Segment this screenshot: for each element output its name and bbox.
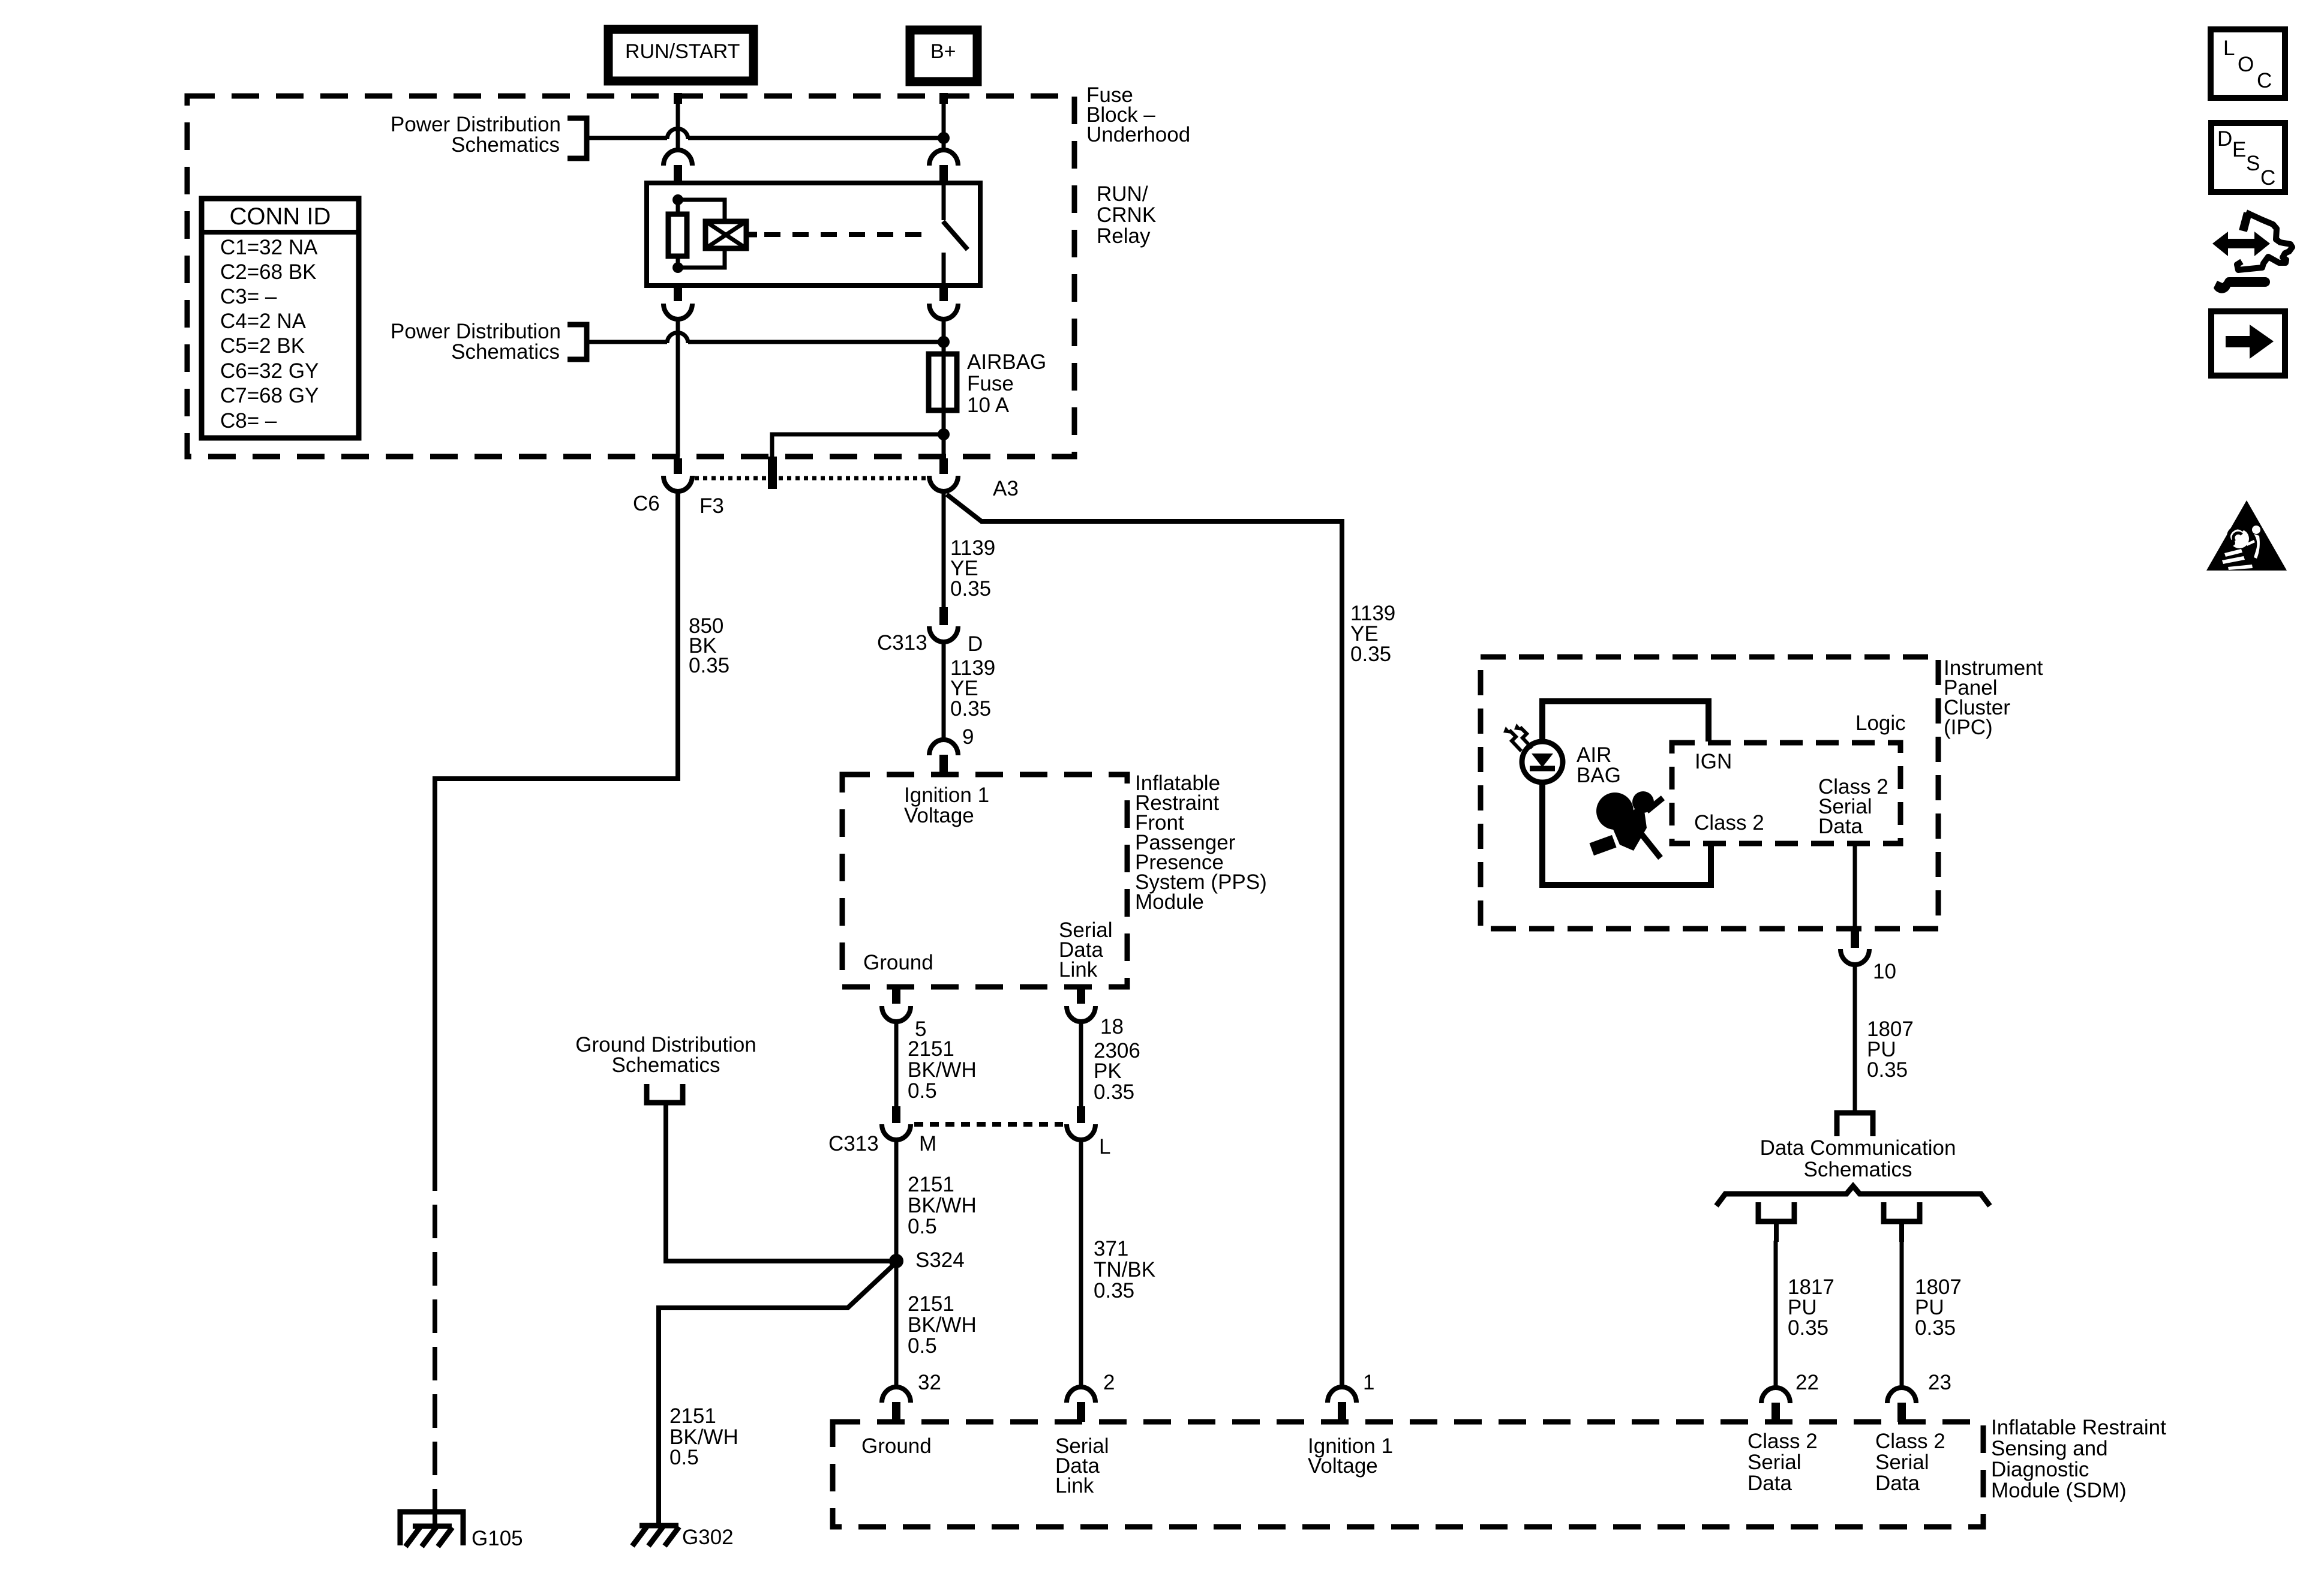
connector face dotted line C6-A3 — [695, 476, 927, 481]
svg-text:Ground: Ground — [863, 951, 933, 974]
svg-text:S324: S324 — [915, 1248, 965, 1272]
svg-text:RUN/: RUN/ — [1097, 182, 1148, 206]
wire label 371 TN/BK 0.35 — [1094, 1237, 1155, 1302]
wire A3 to C313 D — [939, 493, 948, 625]
connector C313 M — [882, 1124, 911, 1140]
svg-text:Data: Data — [1875, 1472, 1920, 1495]
svg-text:32: 32 — [918, 1371, 941, 1394]
svg-text:0.5: 0.5 — [669, 1446, 699, 1469]
wire: power distribution line 1 — [587, 129, 944, 139]
wire label 1817 PU 0.35 — [1788, 1275, 1834, 1340]
svg-text:D: D — [2217, 127, 2232, 151]
SDM internal label Serial Data Link — [1055, 1434, 1109, 1497]
svg-text:IGN: IGN — [1695, 750, 1732, 773]
svg-text:G105: G105 — [472, 1527, 523, 1550]
connector PPS pin 5 — [882, 988, 911, 1022]
svg-text:Module (SDM): Module (SDM) — [1991, 1479, 2127, 1502]
svg-text:C1=32 NA: C1=32 NA — [220, 236, 318, 259]
wire label 1139 YE 0.35 lower — [950, 656, 995, 721]
svg-text:Underhood: Underhood — [1086, 123, 1190, 146]
relay switch wire from box top — [942, 183, 946, 220]
wire label 1807 PU 0.35 (pin23) — [1915, 1275, 1962, 1340]
svg-text:Data Communication: Data Communication — [1760, 1136, 1956, 1160]
svg-text:2151: 2151 — [908, 1173, 954, 1196]
relay RUN/CRNK box — [647, 183, 980, 286]
power distribution bracket 1 — [568, 118, 587, 158]
airbag pictogram — [1589, 791, 1663, 858]
svg-text:M: M — [919, 1132, 936, 1155]
LED diode symbol — [1530, 754, 1555, 769]
svg-text:C6=32 GY: C6=32 GY — [220, 359, 319, 383]
connector SDM pin 22 — [1761, 1388, 1790, 1422]
wire to F3 terminal — [768, 434, 944, 489]
connector SDM pin 1 — [1328, 1387, 1356, 1422]
svg-text:0.35: 0.35 — [1915, 1316, 1956, 1340]
svg-text:Fuse: Fuse — [967, 372, 1014, 395]
data communication destination bracket — [1837, 1113, 1873, 1136]
svg-text:Module: Module — [1135, 890, 1204, 914]
svg-text:C313: C313 — [828, 1132, 879, 1155]
branch bracket left — [1758, 1202, 1794, 1242]
svg-text:0.35: 0.35 — [1788, 1316, 1828, 1340]
wire label 2151 BK/WH 0.5 (M to S324) — [908, 1173, 977, 1238]
svg-text:1: 1 — [1363, 1371, 1374, 1394]
wire RUN/START drop — [674, 93, 682, 150]
wire: power distribution line 2 — [587, 333, 944, 343]
svg-text:A3: A3 — [993, 477, 1019, 500]
svg-text:2151: 2151 — [669, 1404, 716, 1428]
IPC wire LED to logic Class 2 — [1542, 781, 1711, 885]
svg-text:0.5: 0.5 — [908, 1215, 937, 1238]
wire logic output to IPC edge — [1853, 843, 1857, 927]
connector C313 D — [929, 626, 958, 642]
PPS module label — [1135, 772, 1267, 914]
wire label 2151 BK/WH 0.5 (pin5) — [908, 1037, 977, 1103]
relay label — [1097, 182, 1156, 248]
svg-text:S: S — [2246, 152, 2260, 175]
svg-text:PK: PK — [1094, 1059, 1122, 1083]
wire pin18 to C313 L — [1077, 1022, 1085, 1123]
svg-text:371: 371 — [1094, 1237, 1128, 1260]
svg-text:10: 10 — [1873, 960, 1896, 983]
ground G105 — [400, 1509, 463, 1547]
connector C6 — [663, 458, 692, 491]
wire ground distribution to S324 — [666, 1122, 896, 1261]
label box RUN/START — [608, 29, 753, 81]
svg-text:L: L — [2223, 37, 2235, 60]
connector RUN/START into relay — [663, 150, 692, 183]
svg-text:0.35: 0.35 — [1867, 1058, 1908, 1082]
connector C313 L — [1067, 1124, 1095, 1140]
svg-text:23: 23 — [1928, 1371, 1951, 1394]
wire label 2151 BK/WH 0.5 (G302) — [669, 1404, 738, 1469]
relay coil resistor — [668, 200, 687, 268]
junction dot relay bottom — [672, 262, 683, 273]
svg-text:C: C — [2260, 166, 2275, 190]
junction S324 — [889, 1254, 903, 1268]
svg-text:C7=68 GY: C7=68 GY — [220, 384, 319, 407]
svg-text:C: C — [2257, 69, 2272, 92]
branch bracket right — [1884, 1202, 1920, 1242]
svg-text:Voltage: Voltage — [1308, 1454, 1378, 1478]
SDM internal label Class 2 Serial Data (pin22) — [1747, 1430, 1818, 1495]
svg-text:0.35: 0.35 — [1094, 1279, 1134, 1302]
relay solenoid X box — [705, 221, 757, 248]
power distribution bracket 2 — [568, 325, 587, 359]
logic label Class 2 Serial Data — [1818, 775, 1888, 838]
svg-text:Link: Link — [1055, 1474, 1094, 1497]
junction dot fuse output — [938, 428, 950, 440]
svg-text:RUN/START: RUN/START — [625, 40, 740, 63]
label box B+ — [910, 30, 977, 82]
svg-text:Schematics: Schematics — [1804, 1158, 1912, 1181]
svg-text:TN/BK: TN/BK — [1094, 1258, 1155, 1281]
wire A3 branch to ignition 1 voltage — [947, 494, 1342, 1387]
connector PPS pin 18 — [1067, 988, 1095, 1022]
wire L to SDM pin 2 — [1079, 1140, 1083, 1387]
svg-text:BK/WH: BK/WH — [908, 1058, 977, 1082]
svg-text:AIRBAG: AIRBAG — [967, 350, 1046, 374]
svg-text:C2=68 BK: C2=68 BK — [220, 260, 317, 284]
IPC dashed box — [1481, 657, 1938, 929]
wire pin 10 to data comm bracket — [1853, 965, 1857, 1110]
SDM module label — [1991, 1416, 2166, 1502]
relay control dashed line — [764, 232, 933, 237]
svg-text:Diagnostic: Diagnostic — [1991, 1458, 2089, 1481]
svg-text:Serial: Serial — [1875, 1451, 1929, 1474]
wire B+ relay to fuse — [942, 319, 946, 354]
PPS internal label Serial Data Link — [1059, 918, 1112, 981]
svg-text:0.35: 0.35 — [689, 654, 729, 677]
svg-text:Data: Data — [1747, 1472, 1792, 1495]
icon LOC box — [2211, 29, 2285, 98]
svg-text:C3= –: C3= – — [220, 285, 277, 308]
svg-text:0.35: 0.35 — [1350, 643, 1391, 666]
svg-text:Relay: Relay — [1097, 224, 1151, 248]
svg-text:E: E — [2232, 138, 2246, 161]
svg-text:BK/WH: BK/WH — [908, 1313, 977, 1337]
wire label 1139 YE 0.35 upper — [950, 536, 995, 601]
SDM dashed box — [833, 1422, 1983, 1527]
wire fuse to junction — [942, 410, 946, 457]
junction dot line1 at B+ wire — [938, 132, 950, 144]
svg-text:O: O — [2238, 53, 2254, 76]
svg-text:2151: 2151 — [908, 1292, 954, 1316]
svg-text:Schematics: Schematics — [451, 340, 560, 364]
svg-text:22: 22 — [1795, 1371, 1819, 1394]
svg-text:C5=2 BK: C5=2 BK — [220, 334, 305, 358]
wire label 2306 PK 0.35 — [1094, 1039, 1140, 1104]
ground G302 — [632, 1526, 679, 1546]
svg-text:BAG: BAG — [1577, 764, 1621, 787]
wire 850 BK drop to G105 — [435, 491, 678, 1509]
wire bracket to pin 23 — [1900, 1241, 1904, 1388]
svg-text:Class 2: Class 2 — [1747, 1430, 1818, 1453]
icon airbag warning triangle — [2206, 500, 2287, 571]
CONN ID table — [202, 199, 359, 438]
svg-text:0.5: 0.5 — [908, 1334, 937, 1358]
svg-text:C4=2 NA: C4=2 NA — [220, 310, 307, 333]
svg-text:Schematics: Schematics — [451, 133, 560, 157]
connector SDM pin 2 — [1067, 1387, 1095, 1422]
icon vehicle communication — [2212, 212, 2292, 293]
wire S324 to G302 — [659, 1265, 894, 1524]
svg-text:Class 2: Class 2 — [1875, 1430, 1945, 1453]
svg-text:0.35: 0.35 — [950, 577, 991, 601]
SDM internal label Class 2 Serial Data (pin23) — [1875, 1430, 1945, 1495]
wire label 1139 YE 0.35 right — [1350, 602, 1395, 666]
svg-text:Logic: Logic — [1855, 712, 1906, 735]
svg-text:C8= –: C8= – — [220, 409, 277, 433]
icon DESC box — [2211, 123, 2285, 192]
ground distribution label — [575, 1033, 756, 1077]
wire S324 to SDM pin 32 — [894, 1261, 899, 1387]
svg-text:10 A: 10 A — [967, 394, 1010, 417]
wire label 1807 PU 0.35 (IPC) — [1867, 1017, 1914, 1082]
svg-text:B+: B+ — [930, 40, 956, 63]
svg-text:C6: C6 — [633, 492, 660, 515]
fuse block label — [1086, 83, 1190, 146]
data communication schematics label — [1760, 1136, 1956, 1181]
svg-text:L: L — [1099, 1135, 1110, 1158]
junction dot relay top — [672, 194, 683, 205]
connector SDM pin 32 — [882, 1387, 911, 1422]
power distribution label 1 — [391, 113, 561, 157]
wire pin5 to C313 M — [892, 1022, 900, 1123]
wire left drop to line2 — [676, 319, 680, 457]
PPS internal label Ignition 1 Voltage — [904, 784, 989, 827]
svg-text:(IPC): (IPC) — [1944, 716, 1993, 739]
label AIR BAG — [1577, 743, 1621, 787]
junction dot line2 at B+ wire — [938, 336, 950, 348]
connector below relay left — [663, 286, 692, 319]
IPC label — [1944, 656, 2043, 739]
AIRBAG fuse symbol — [929, 354, 957, 410]
svg-text:0.35: 0.35 — [950, 697, 991, 721]
svg-text:Data: Data — [1818, 815, 1863, 838]
wire B+ drop — [939, 93, 948, 150]
connector below relay right — [929, 286, 958, 319]
svg-text:C313: C313 — [877, 631, 927, 655]
connector pin 9 — [929, 740, 958, 775]
LED indicator circle — [1522, 742, 1563, 782]
svg-text:0.35: 0.35 — [1094, 1080, 1134, 1104]
wire label 2151 BK/WH 0.5 (pin32) — [908, 1292, 977, 1358]
SDM internal label Ignition 1 Voltage — [1308, 1434, 1393, 1478]
IPC wire LED to logic IGN — [1542, 701, 1709, 743]
icon arrow box — [2211, 311, 2285, 376]
svg-text:Schematics: Schematics — [612, 1053, 720, 1077]
PPS module dashed box — [842, 775, 1127, 987]
svg-text:18: 18 — [1100, 1015, 1124, 1038]
svg-text:Inflatable Restraint: Inflatable Restraint — [1991, 1416, 2166, 1439]
svg-text:2: 2 — [1103, 1371, 1115, 1394]
wire M to S324 — [894, 1140, 899, 1261]
svg-text:Class 2: Class 2 — [1694, 811, 1764, 834]
LED flash arrows — [1503, 724, 1532, 751]
wire C313 D to pin 9 — [942, 642, 946, 740]
AIRBAG fuse label — [967, 350, 1046, 417]
svg-text:BK/WH: BK/WH — [908, 1194, 977, 1217]
connector SDM pin 23 — [1887, 1388, 1916, 1422]
svg-text:Serial: Serial — [1747, 1451, 1801, 1474]
svg-text:CRNK: CRNK — [1097, 203, 1156, 227]
svg-text:Voltage: Voltage — [904, 804, 974, 827]
connector B+ into relay — [929, 150, 958, 183]
svg-text:9: 9 — [962, 725, 974, 749]
relay solenoid branch wire — [678, 200, 725, 268]
wire label 850 BK 0.35 — [689, 614, 729, 677]
wire bracket to pin 22 — [1774, 1241, 1778, 1388]
brace — [1716, 1186, 1990, 1206]
relay switch lower contact wire — [942, 253, 946, 286]
svg-text:CONN ID: CONN ID — [230, 203, 331, 230]
svg-text:F3: F3 — [699, 494, 724, 518]
logic dashed box — [1672, 743, 1900, 843]
ground distribution bracket — [647, 1084, 683, 1123]
fuse block underhood dashed box — [187, 96, 1074, 457]
svg-text:2151: 2151 — [908, 1037, 954, 1061]
power distribution label 2 — [391, 320, 561, 364]
connector A3 — [929, 458, 958, 491]
svg-text:Ground: Ground — [861, 1434, 932, 1458]
connector IPC pin 10 — [1840, 927, 1869, 965]
connector face dashed line M-L — [914, 1122, 1063, 1127]
svg-text:0.5: 0.5 — [908, 1079, 937, 1103]
relay switch blade — [943, 221, 968, 250]
svg-text:D: D — [968, 632, 983, 656]
svg-text:Link: Link — [1059, 958, 1098, 981]
svg-text:G302: G302 — [682, 1526, 734, 1549]
svg-text:Sensing and: Sensing and — [1991, 1437, 2108, 1460]
